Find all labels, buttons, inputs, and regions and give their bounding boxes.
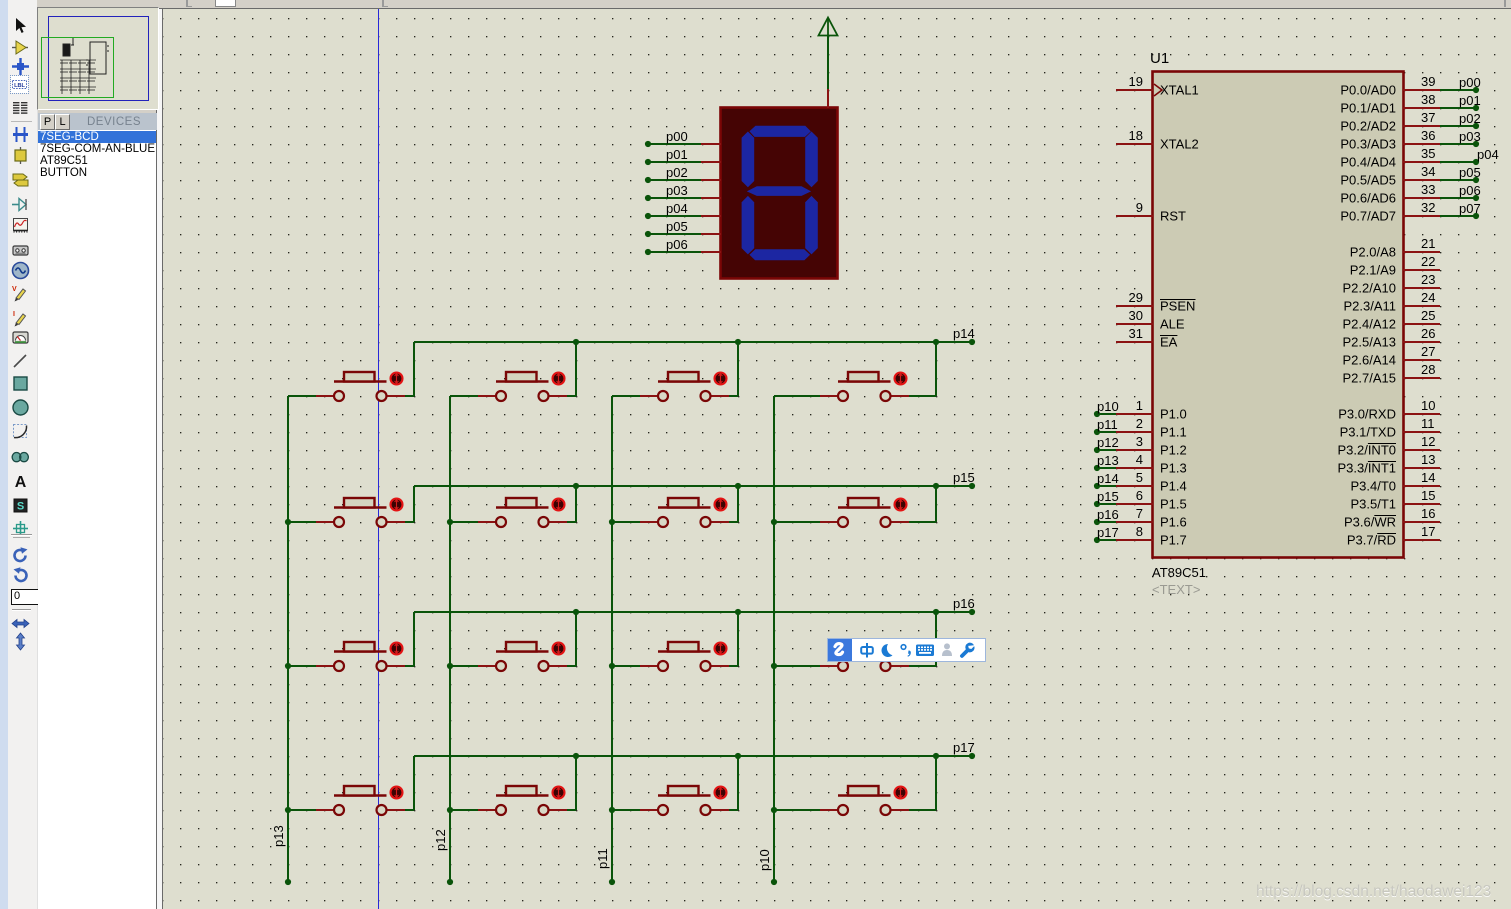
pin 17 P3.7/RD (right side) bbox=[1347, 524, 1440, 548]
svg-text:p15: p15 bbox=[1097, 489, 1119, 504]
button S13 (row 4, col 1) bbox=[316, 786, 405, 815]
svg-text:13: 13 bbox=[1421, 452, 1435, 467]
svg-text:38: 38 bbox=[1421, 92, 1435, 107]
svg-text:p14: p14 bbox=[1097, 471, 1119, 486]
button S10 (row 3, col 2) bbox=[478, 642, 567, 671]
wire column p12 to button row 2 bbox=[450, 521, 478, 523]
wire column p10 to button row 1 bbox=[774, 395, 820, 397]
microcontroller U1 AT89C51 body bbox=[1153, 72, 1404, 558]
wire column p10 to button row 3 bbox=[774, 665, 820, 667]
svg-text:p02: p02 bbox=[666, 165, 688, 180]
svg-text:P1.4: P1.4 bbox=[1160, 479, 1187, 494]
wire button row 2 col 1 to row drop bbox=[405, 521, 414, 523]
pin 32 P0.7/AD7 (right side) bbox=[1340, 200, 1480, 224]
svg-text:p06: p06 bbox=[1459, 183, 1481, 198]
svg-text:23: 23 bbox=[1421, 272, 1435, 287]
svg-text:14: 14 bbox=[1421, 470, 1435, 485]
pin 37 P0.2/AD2 (right side) bbox=[1340, 110, 1480, 134]
svg-text:29: 29 bbox=[1129, 290, 1143, 305]
svg-text:P1.3: P1.3 bbox=[1160, 461, 1187, 476]
svg-text:15: 15 bbox=[1421, 488, 1435, 503]
svg-text:25: 25 bbox=[1421, 308, 1435, 323]
wire row p17 drop to button col 2 bbox=[575, 756, 577, 810]
svg-text:17: 17 bbox=[1421, 524, 1435, 539]
svg-text:8: 8 bbox=[1136, 524, 1143, 539]
wire column p11 to button row 3 bbox=[612, 665, 640, 667]
wire row p15 drop to button col 1 bbox=[413, 486, 415, 522]
svg-text:p05: p05 bbox=[666, 219, 688, 234]
pin 11 P3.1/TXD (right side) bbox=[1340, 416, 1440, 440]
svg-text:p17: p17 bbox=[953, 740, 975, 755]
svg-text:24: 24 bbox=[1421, 290, 1435, 305]
wire net p11 column line bbox=[609, 396, 615, 885]
svg-text:P1.2: P1.2 bbox=[1160, 443, 1187, 458]
svg-text:P3.1/TXD: P3.1/TXD bbox=[1340, 425, 1396, 440]
svg-text:30: 30 bbox=[1129, 308, 1143, 323]
svg-text:18: 18 bbox=[1129, 128, 1143, 143]
wire row p17 drop to button col 4 bbox=[935, 756, 937, 810]
sheet border (blue page edge line) bbox=[378, 9, 380, 909]
pin 21 P2.0/A8 (right side) bbox=[1350, 236, 1440, 260]
wire column p13 to button row 4 bbox=[288, 809, 316, 811]
wire button row 4 col 4 to row drop bbox=[909, 809, 936, 811]
wire row p16 drop to button col 1 bbox=[413, 612, 415, 666]
button S16 (row 4, col 4) bbox=[820, 786, 909, 815]
net label p11 (rotated) bbox=[595, 848, 610, 869]
7-segment display (7SEG-BCD) bbox=[721, 108, 838, 279]
pin 5 P1.4 (left side) bbox=[1094, 470, 1187, 494]
wire row p14 drop to button col 3 bbox=[737, 342, 739, 396]
svg-text:11: 11 bbox=[1421, 416, 1435, 431]
svg-text:P0.7/AD7: P0.7/AD7 bbox=[1340, 209, 1396, 224]
svg-text:P2.4/A12: P2.4/A12 bbox=[1343, 317, 1397, 332]
svg-text:P1.0: P1.0 bbox=[1160, 407, 1187, 422]
svg-text:P3.3/INT1: P3.3/INT1 bbox=[1337, 461, 1396, 476]
wire button row 1 col 1 to row drop bbox=[405, 395, 414, 397]
svg-text:28: 28 bbox=[1421, 362, 1435, 377]
wire button row 1 col 3 to row drop bbox=[729, 395, 738, 397]
wire net p04 to display segment bbox=[645, 201, 701, 219]
svg-text:2: 2 bbox=[1136, 416, 1143, 431]
button S8 (row 2, col 4) bbox=[820, 498, 909, 527]
svg-text:V: V bbox=[12, 286, 17, 293]
svg-text:P2.3/A11: P2.3/A11 bbox=[1343, 299, 1396, 314]
wire net p10 column line bbox=[771, 396, 777, 885]
pin 25 P2.4/A12 (right side) bbox=[1343, 308, 1441, 332]
pin 23 P2.2/A10 (right side) bbox=[1343, 272, 1441, 296]
net label p10 (rotated) bbox=[757, 849, 772, 871]
svg-text:P1.7: P1.7 bbox=[1160, 533, 1187, 548]
svg-text:p11: p11 bbox=[595, 848, 610, 869]
svg-text:P3.4/T0: P3.4/T0 bbox=[1350, 479, 1396, 494]
wire row p14 drop to button col 2 bbox=[575, 342, 577, 396]
wire button row 4 col 1 to row drop bbox=[405, 809, 414, 811]
svg-text:XTAL1: XTAL1 bbox=[1160, 83, 1199, 98]
svg-text:P0.1/AD1: P0.1/AD1 bbox=[1340, 101, 1396, 116]
svg-text:P3.6/WR: P3.6/WR bbox=[1344, 515, 1396, 530]
svg-text:p10: p10 bbox=[1097, 399, 1119, 414]
svg-text:I: I bbox=[13, 311, 15, 318]
wire button row 3 col 4 to row drop bbox=[909, 665, 936, 667]
svg-text:RST: RST bbox=[1160, 209, 1186, 224]
svg-text:12: 12 bbox=[1421, 434, 1435, 449]
net label p12 (rotated) bbox=[433, 829, 448, 851]
pin 2 P1.1 (left side) bbox=[1094, 416, 1187, 440]
pin 14 P3.4/T0 (right side) bbox=[1350, 470, 1440, 494]
pin 9 RST (left side) bbox=[1116, 200, 1186, 224]
svg-text:27: 27 bbox=[1421, 344, 1435, 359]
pin 30 ALE (left side) bbox=[1116, 308, 1185, 332]
svg-text:<TEXT>: <TEXT> bbox=[1152, 582, 1200, 597]
wire row p14 drop to button col 4 bbox=[935, 342, 937, 396]
button S9 (row 3, col 1) bbox=[316, 642, 405, 671]
svg-text:P3.0/RXD: P3.0/RXD bbox=[1338, 407, 1396, 422]
svg-text:32: 32 bbox=[1421, 200, 1435, 215]
svg-text:36: 36 bbox=[1421, 128, 1435, 143]
wire column p12 to button row 3 bbox=[450, 665, 478, 667]
pin 28 P2.7/A15 (right side) bbox=[1343, 362, 1441, 386]
button S15 (row 4, col 3) bbox=[640, 786, 729, 815]
svg-text:S: S bbox=[17, 500, 24, 512]
svg-text:P2.6/A14: P2.6/A14 bbox=[1343, 353, 1397, 368]
wire button row 3 col 3 to row drop bbox=[729, 665, 738, 667]
svg-text:4: 4 bbox=[1136, 452, 1143, 467]
button S12 (row 3, col 4) bbox=[820, 642, 909, 671]
svg-text:P0.4/AD4: P0.4/AD4 bbox=[1340, 155, 1396, 170]
wire column p12 to button row 4 bbox=[450, 809, 478, 811]
pin 29 PSEN (left side) bbox=[1116, 290, 1196, 314]
svg-text:P0.5/AD5: P0.5/AD5 bbox=[1340, 173, 1396, 188]
svg-text:A: A bbox=[15, 474, 27, 491]
pin 26 P2.5/A13 (right side) bbox=[1343, 326, 1441, 350]
svg-text:1: 1 bbox=[1136, 398, 1143, 413]
pin 10 P3.0/RXD (right side) bbox=[1338, 398, 1440, 422]
XTAL1 clock input arrow bbox=[1154, 84, 1162, 96]
svg-text:PSEN: PSEN bbox=[1160, 299, 1195, 314]
wire button row 3 col 2 to row drop bbox=[567, 665, 576, 667]
wire net p15 row line bbox=[414, 470, 975, 489]
svg-text:p16: p16 bbox=[1097, 507, 1119, 522]
svg-text:10: 10 bbox=[1421, 398, 1435, 413]
pin 13 P3.3/INT1 (right side) bbox=[1337, 452, 1440, 476]
wire button row 2 col 4 to row drop bbox=[909, 521, 936, 523]
svg-text:p00: p00 bbox=[1459, 75, 1481, 90]
svg-text:p01: p01 bbox=[666, 147, 688, 162]
svg-text:19: 19 bbox=[1129, 74, 1143, 89]
net label p13 (rotated) bbox=[271, 825, 286, 847]
button S14 (row 4, col 2) bbox=[478, 786, 567, 815]
svg-text:P0.3/AD3: P0.3/AD3 bbox=[1340, 137, 1396, 152]
svg-text:p02: p02 bbox=[1459, 111, 1481, 126]
pin 6 P1.5 (left side) bbox=[1094, 488, 1187, 512]
svg-text:ALE: ALE bbox=[1160, 317, 1185, 332]
svg-text:35: 35 bbox=[1421, 146, 1435, 161]
svg-text:p11: p11 bbox=[1097, 417, 1118, 432]
pin 24 P2.3/A11 (right side) bbox=[1343, 290, 1440, 314]
svg-text:6: 6 bbox=[1136, 488, 1143, 503]
svg-text:P0.2/AD2: P0.2/AD2 bbox=[1340, 119, 1396, 134]
wire net p13 column line bbox=[285, 396, 291, 885]
pin 8 P1.7 (left side) bbox=[1094, 524, 1187, 548]
svg-text:9: 9 bbox=[1136, 200, 1143, 215]
svg-text:XTAL2: XTAL2 bbox=[1160, 137, 1199, 152]
svg-text:21: 21 bbox=[1421, 236, 1435, 251]
wire net p00 to display segment bbox=[645, 129, 701, 147]
svg-text:p03: p03 bbox=[666, 183, 688, 198]
svg-text:P3.7/RD: P3.7/RD bbox=[1347, 533, 1396, 548]
svg-text:7: 7 bbox=[1136, 506, 1143, 521]
svg-text:P2.0/A8: P2.0/A8 bbox=[1350, 245, 1396, 260]
svg-text:p16: p16 bbox=[953, 596, 975, 611]
wire column p11 to button row 4 bbox=[612, 809, 640, 811]
svg-text:U1: U1 bbox=[1150, 50, 1169, 67]
svg-text:P1.1: P1.1 bbox=[1160, 425, 1187, 440]
svg-text:p12: p12 bbox=[433, 829, 448, 851]
wire column p11 to button row 1 bbox=[612, 395, 640, 397]
U1 reference label bbox=[1150, 50, 1169, 67]
wire button row 1 col 2 to row drop bbox=[567, 395, 576, 397]
button S7 (row 2, col 3) bbox=[640, 498, 729, 527]
svg-text:p07: p07 bbox=[1459, 201, 1481, 216]
svg-text:31: 31 bbox=[1129, 326, 1143, 341]
svg-text:p04: p04 bbox=[1477, 147, 1499, 162]
pin 3 P1.2 (left side) bbox=[1094, 434, 1187, 458]
wire column p13 to button row 2 bbox=[288, 521, 316, 523]
svg-text:p17: p17 bbox=[1097, 525, 1119, 540]
svg-text:33: 33 bbox=[1421, 182, 1435, 197]
svg-text:P2.1/A9: P2.1/A9 bbox=[1350, 263, 1396, 278]
wire button row 3 col 1 to row drop bbox=[405, 665, 414, 667]
pin 31 EA (left side) bbox=[1116, 326, 1178, 350]
svg-text:p15: p15 bbox=[953, 470, 975, 485]
pin 33 P0.6/AD6 (right side) bbox=[1340, 182, 1480, 206]
pin 38 P0.1/AD1 (right side) bbox=[1340, 92, 1480, 116]
pin 12 P3.2/INT0 (right side) bbox=[1337, 434, 1440, 458]
wire column p12 to button row 1 bbox=[450, 395, 478, 397]
pin 34 P0.5/AD5 (right side) bbox=[1340, 164, 1480, 188]
svg-text:LBL: LBL bbox=[14, 83, 25, 89]
wire row p15 drop to button col 4 bbox=[935, 486, 937, 522]
wire row p16 drop to button col 3 bbox=[737, 612, 739, 666]
wire button row 1 col 4 to row drop bbox=[909, 395, 936, 397]
svg-text:P2.2/A10: P2.2/A10 bbox=[1343, 281, 1397, 296]
pin 39 P0.0/AD0 (right side) bbox=[1340, 74, 1480, 98]
pin 4 P1.3 (left side) bbox=[1094, 452, 1187, 476]
wire net p16 row line bbox=[414, 596, 975, 615]
svg-text:p12: p12 bbox=[1097, 435, 1119, 450]
wire net p05 to display segment bbox=[645, 219, 701, 237]
wire net p01 to display segment bbox=[645, 147, 701, 165]
wire row p14 drop to button col 1 bbox=[413, 342, 415, 396]
pin 27 P2.6/A14 (right side) bbox=[1343, 344, 1441, 368]
wire row p16 drop to button col 4 bbox=[935, 612, 937, 666]
wire net p14 row line bbox=[414, 326, 975, 345]
button S3 (row 1, col 3) bbox=[640, 372, 729, 401]
svg-text:p14: p14 bbox=[953, 326, 975, 341]
svg-text:P3.2/INT0: P3.2/INT0 bbox=[1337, 443, 1396, 458]
svg-text:P1.6: P1.6 bbox=[1160, 515, 1187, 530]
wire column p10 to button row 2 bbox=[774, 521, 820, 523]
svg-text:P0.6/AD6: P0.6/AD6 bbox=[1340, 191, 1396, 206]
svg-text:34: 34 bbox=[1421, 164, 1435, 179]
wire column p10 to button row 4 bbox=[774, 809, 820, 811]
wire button row 2 col 3 to row drop bbox=[729, 521, 738, 523]
button S6 (row 2, col 2) bbox=[478, 498, 567, 527]
wire column p13 to button row 1 bbox=[288, 395, 316, 397]
input-method floating toolbar bbox=[827, 638, 986, 662]
wire net p06 to display segment bbox=[645, 237, 701, 255]
wire net p17 row line bbox=[414, 740, 975, 759]
svg-text:P3.5/T1: P3.5/T1 bbox=[1350, 497, 1396, 512]
button S1 (row 1, col 1) bbox=[316, 372, 405, 401]
pin 18 XTAL2 (left side) bbox=[1116, 128, 1199, 152]
svg-text:P2.7/A15: P2.7/A15 bbox=[1343, 371, 1397, 386]
svg-text:EA: EA bbox=[1160, 335, 1178, 350]
svg-text:16: 16 bbox=[1421, 506, 1435, 521]
svg-text:p05: p05 bbox=[1459, 165, 1481, 180]
wire column p11 to button row 2 bbox=[612, 521, 640, 523]
svg-text:37: 37 bbox=[1421, 110, 1435, 125]
pin 15 P3.5/T1 (right side) bbox=[1350, 488, 1440, 512]
svg-text:AT89C51: AT89C51 bbox=[1152, 565, 1206, 580]
svg-text:p03: p03 bbox=[1459, 129, 1481, 144]
pin 1 P1.0 (left side) bbox=[1094, 398, 1187, 422]
svg-text:P1.5: P1.5 bbox=[1160, 497, 1187, 512]
svg-text:p13: p13 bbox=[1097, 453, 1119, 468]
wire column p13 to button row 3 bbox=[288, 665, 316, 667]
wire row p17 drop to button col 1 bbox=[413, 756, 415, 810]
pin 22 P2.1/A9 (right side) bbox=[1350, 254, 1440, 278]
svg-text:p04: p04 bbox=[666, 201, 688, 216]
pin 16 P3.6/WR (right side) bbox=[1344, 506, 1440, 530]
wire net p02 to display segment bbox=[645, 165, 701, 183]
wire net p03 to display segment bbox=[645, 183, 701, 201]
svg-text:3: 3 bbox=[1136, 434, 1143, 449]
svg-text:p01: p01 bbox=[1459, 93, 1481, 108]
svg-text:26: 26 bbox=[1421, 326, 1435, 341]
svg-text:p10: p10 bbox=[757, 849, 772, 871]
wire row p16 drop to button col 2 bbox=[575, 612, 577, 666]
button S5 (row 2, col 1) bbox=[316, 498, 405, 527]
pin 36 P0.3/AD3 (right side) bbox=[1340, 128, 1480, 152]
button S11 (row 3, col 3) bbox=[640, 642, 729, 671]
wire row p15 drop to button col 2 bbox=[575, 486, 577, 522]
svg-text:p06: p06 bbox=[666, 237, 688, 252]
display pin stubs (segment inputs + anode) bbox=[701, 89, 828, 252]
pin 7 P1.6 (left side) bbox=[1094, 506, 1187, 530]
wire button row 2 col 2 to row drop bbox=[567, 521, 576, 523]
svg-text:5: 5 bbox=[1136, 470, 1143, 485]
U1 value label AT89C51 bbox=[1152, 565, 1206, 597]
pin 19 XTAL1 (left side) bbox=[1116, 74, 1199, 98]
button S2 (row 1, col 2) bbox=[478, 372, 567, 401]
svg-text:p13: p13 bbox=[271, 825, 286, 847]
wire button row 4 col 3 to row drop bbox=[729, 809, 738, 811]
wire row p17 drop to button col 3 bbox=[737, 756, 739, 810]
wire net p12 column line bbox=[447, 396, 453, 885]
pin 35 P0.4/AD4 (right side) bbox=[1340, 146, 1498, 170]
wire row p15 drop to button col 3 bbox=[737, 486, 739, 522]
svg-text:22: 22 bbox=[1421, 254, 1435, 269]
wire button row 4 col 2 to row drop bbox=[567, 809, 576, 811]
power terminal (VCC) above display bbox=[819, 18, 838, 91]
svg-text:P0.0/AD0: P0.0/AD0 bbox=[1340, 83, 1396, 98]
svg-text:39: 39 bbox=[1421, 74, 1435, 89]
button S4 (row 1, col 4) bbox=[820, 372, 909, 401]
svg-text:p00: p00 bbox=[666, 129, 688, 144]
svg-text:P2.5/A13: P2.5/A13 bbox=[1343, 335, 1397, 350]
